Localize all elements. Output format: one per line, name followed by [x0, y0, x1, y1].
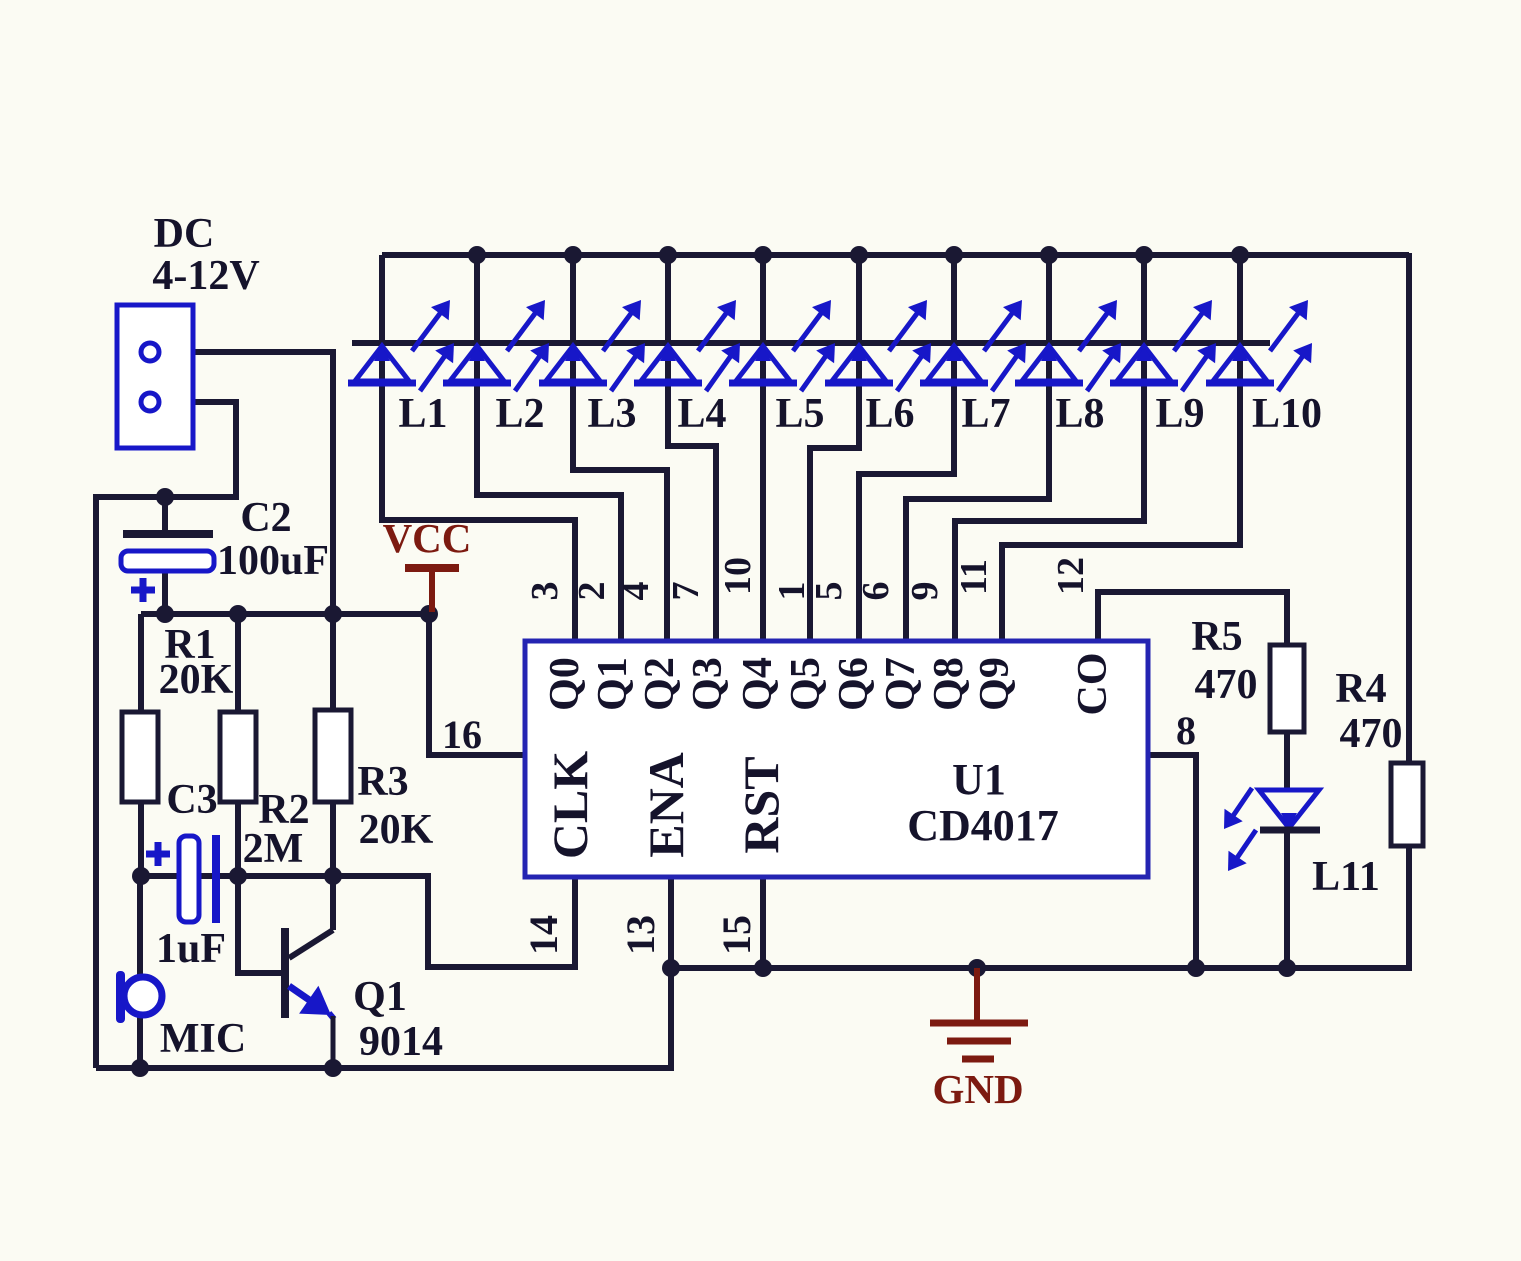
svg-text:L1: L1 — [398, 391, 447, 437]
node R3 bottom junction — [324, 867, 342, 885]
wire L8 to pin 6 — [906, 383, 1049, 641]
wire L9 anode lead — [1141, 343, 1147, 387]
svg-text:9: 9 — [904, 582, 946, 601]
wire top supply bus — [382, 252, 1409, 258]
node pin8 junction — [1187, 959, 1205, 977]
wire L2 to pin 2 — [477, 383, 621, 641]
resistor R1 — [138, 614, 144, 712]
svg-text:Q1: Q1 — [353, 974, 407, 1020]
capacitor C2 plus — [131, 587, 155, 594]
svg-text:5: 5 — [808, 582, 850, 601]
wire VCC rail — [141, 611, 429, 617]
capacitor C3 left plate — [179, 836, 199, 922]
wire C2 top lead — [162, 497, 168, 534]
svg-text:16: 16 — [442, 712, 482, 757]
svg-text:10: 10 — [717, 557, 759, 595]
connector J1 DC 4-12V — [117, 305, 193, 448]
wire CO pin12 to R5 — [1098, 592, 1287, 645]
wire pin 15 drop — [760, 877, 766, 968]
svg-text:DC: DC — [154, 211, 215, 257]
svg-text:L9: L9 — [1155, 391, 1204, 437]
wire L3 to pin 4 — [573, 383, 667, 641]
wire R2 node to Q1 base — [238, 876, 282, 973]
svg-text:L8: L8 — [1055, 391, 1104, 437]
transistor Q1 — [281, 928, 289, 1018]
svg-text:1: 1 — [771, 582, 813, 601]
wire L4 anode lead — [665, 343, 671, 387]
resistor R2 — [235, 614, 241, 712]
wire pin 13 to ground rail — [96, 877, 671, 1068]
capacitor C2 bottom plate — [121, 551, 214, 571]
LED L7 — [927, 346, 981, 381]
node bus junction L7 — [945, 246, 963, 264]
svg-text:11: 11 — [953, 559, 995, 595]
svg-text:2: 2 — [571, 582, 613, 601]
svg-text:1uF: 1uF — [156, 926, 226, 972]
wire L10 to pin 11 — [1002, 383, 1240, 641]
wire C2 bottom lead — [162, 570, 168, 614]
svg-text:12: 12 — [1050, 557, 1092, 595]
svg-text:Q5: Q5 — [783, 657, 829, 711]
svg-text:MIC: MIC — [160, 1016, 246, 1062]
svg-text:4: 4 — [615, 582, 657, 601]
resistor R3 — [330, 614, 336, 710]
svg-text:Q1: Q1 — [590, 657, 636, 711]
svg-text:6: 6 — [855, 582, 897, 601]
wire R4 branch from bus — [1406, 253, 1412, 763]
LED L11 — [1259, 790, 1319, 828]
wire Q1 collector riser — [330, 876, 336, 930]
svg-text:U1: U1 — [952, 755, 1006, 804]
wire L8 riser from bus — [1046, 255, 1052, 343]
node bus junction L9 — [1135, 246, 1153, 264]
wire L1 riser from bus — [379, 255, 385, 343]
svg-text:L11: L11 — [1312, 854, 1380, 900]
ground GND symbol — [974, 968, 980, 1021]
wire L8 anode lead — [1046, 343, 1052, 387]
svg-text:CLK: CLK — [542, 751, 598, 859]
ic U1 CD4017 body — [525, 641, 1148, 877]
wire L10 riser from bus — [1237, 255, 1243, 343]
svg-text:15: 15 — [714, 915, 759, 955]
svg-text:C2: C2 — [240, 495, 291, 541]
wire LED cathode bar row — [352, 340, 1270, 346]
svg-text:C3: C3 — [166, 777, 217, 823]
wire L9 to pin 9 — [955, 383, 1144, 641]
svg-text:20K: 20K — [359, 807, 434, 853]
svg-text:CD4017: CD4017 — [907, 801, 1059, 850]
node bus junction L3 — [564, 246, 582, 264]
svg-text:470: 470 — [1195, 662, 1258, 708]
svg-text:R5: R5 — [1191, 614, 1242, 660]
resistor R5 — [1270, 645, 1304, 732]
wire L2 anode lead — [474, 343, 480, 387]
svg-text:Q3: Q3 — [685, 657, 731, 711]
wire L7 anode lead — [951, 343, 957, 387]
node bus junction L4 — [659, 246, 677, 264]
wire L7 riser from bus — [951, 255, 957, 343]
microphone MIC — [116, 971, 125, 1023]
node R2 bottom junction — [229, 867, 247, 885]
svg-text:100uF: 100uF — [217, 538, 329, 584]
node MIC rail junction — [131, 1059, 149, 1077]
svg-text:2M: 2M — [243, 826, 304, 872]
node pin15 junction — [754, 959, 772, 977]
wire L5 riser from bus — [760, 255, 766, 343]
svg-text:3: 3 — [524, 582, 566, 601]
wire VCC to pin 16 — [429, 614, 525, 755]
LED L10 — [1213, 346, 1267, 381]
svg-text:GND: GND — [932, 1066, 1023, 1112]
node VCC rail junction — [420, 605, 438, 623]
svg-text:13: 13 — [618, 915, 663, 955]
svg-text:L5: L5 — [775, 391, 824, 437]
node bus junction L10 — [1231, 246, 1249, 264]
node C2 rail junction — [156, 605, 174, 623]
svg-text:Q8: Q8 — [926, 657, 972, 711]
wire MIC bottom lead — [137, 1017, 143, 1068]
wire L4 to pin 7 — [668, 383, 716, 641]
wire MIC top lead — [137, 876, 143, 976]
node bus junction L5 — [754, 246, 772, 264]
svg-text:L4: L4 — [677, 391, 726, 437]
node pin13 junction — [662, 959, 680, 977]
wire base node horizontal — [141, 876, 575, 967]
node Q1 emitter rail junction — [324, 1059, 342, 1077]
svg-text:Q6: Q6 — [831, 657, 877, 711]
LED L6 — [832, 346, 886, 381]
node C3 left junction — [132, 867, 150, 885]
svg-text:7: 7 — [665, 582, 707, 601]
wire L6 anode lead — [856, 343, 862, 387]
wire DC- to ground rail — [96, 402, 236, 1068]
LED L8 — [1022, 346, 1076, 381]
LED L1 — [355, 346, 409, 381]
svg-text:L3: L3 — [587, 391, 636, 437]
resistor R4 — [1391, 763, 1423, 846]
svg-text:470: 470 — [1340, 711, 1403, 757]
svg-text:8: 8 — [1176, 708, 1196, 753]
svg-text:9014: 9014 — [359, 1019, 443, 1065]
wire L5 to pin 10 — [760, 383, 766, 641]
svg-text:L7: L7 — [961, 391, 1010, 437]
svg-text:L2: L2 — [495, 391, 544, 437]
svg-text:L6: L6 — [865, 391, 914, 437]
wire DC+ to VCC rail — [154, 352, 333, 614]
wire L5 anode lead — [760, 343, 766, 387]
node R3 rail junction — [324, 605, 342, 623]
power VCC symbol — [405, 564, 459, 572]
wire L6 riser from bus — [856, 255, 862, 343]
node R2 rail junction — [229, 605, 247, 623]
svg-text:Q7: Q7 — [878, 657, 924, 711]
LED L2 — [450, 346, 504, 381]
wire L3 riser from bus — [570, 255, 576, 343]
wire L9 riser from bus — [1141, 255, 1147, 343]
node bus junction L2 — [468, 246, 486, 264]
svg-text:CO: CO — [1070, 653, 1116, 716]
svg-text:20K: 20K — [159, 657, 234, 703]
wire L7 to pin 5 — [859, 383, 954, 641]
wire L6 to pin 1 — [810, 383, 859, 641]
LED L9 — [1117, 346, 1171, 381]
node bus junction L6 — [850, 246, 868, 264]
capacitor C2 top plate — [123, 530, 213, 538]
wire L3 anode lead — [570, 343, 576, 387]
LED L3 — [546, 346, 600, 381]
wire L11 cathode lead — [1284, 830, 1290, 968]
svg-text:4-12V: 4-12V — [152, 253, 259, 299]
svg-text:VCC: VCC — [383, 515, 472, 561]
wire L2 riser from bus — [474, 255, 480, 343]
node L11 junction — [1278, 959, 1296, 977]
wire L4 riser from bus — [665, 255, 671, 343]
svg-text:L10: L10 — [1252, 391, 1322, 437]
node C2 top junction — [156, 488, 174, 506]
capacitor C3 plus — [146, 851, 170, 858]
svg-text:Q0: Q0 — [542, 657, 588, 711]
svg-text:RST: RST — [733, 756, 789, 853]
svg-text:14: 14 — [521, 915, 566, 955]
wire L1 to pin 3 — [382, 383, 575, 641]
wire C3 right lead — [220, 873, 238, 879]
LED L5 — [736, 346, 790, 381]
wire pin 8 — [1148, 755, 1196, 968]
wire L1 anode lead — [379, 343, 385, 387]
wire L10 anode lead — [1237, 343, 1243, 387]
svg-text:Q9: Q9 — [972, 657, 1018, 711]
svg-text:Q4: Q4 — [735, 657, 781, 711]
svg-text:R3: R3 — [357, 759, 408, 805]
LED L4 — [641, 346, 695, 381]
svg-text:ENA: ENA — [638, 752, 694, 858]
node GND junction — [968, 959, 986, 977]
wire R5 to L11 — [1284, 732, 1290, 790]
svg-text:Q2: Q2 — [637, 657, 683, 711]
capacitor C3 right plate — [212, 835, 220, 923]
node bus junction L8 — [1040, 246, 1058, 264]
svg-text:R4: R4 — [1335, 666, 1386, 712]
wire ground run right — [671, 846, 1409, 968]
